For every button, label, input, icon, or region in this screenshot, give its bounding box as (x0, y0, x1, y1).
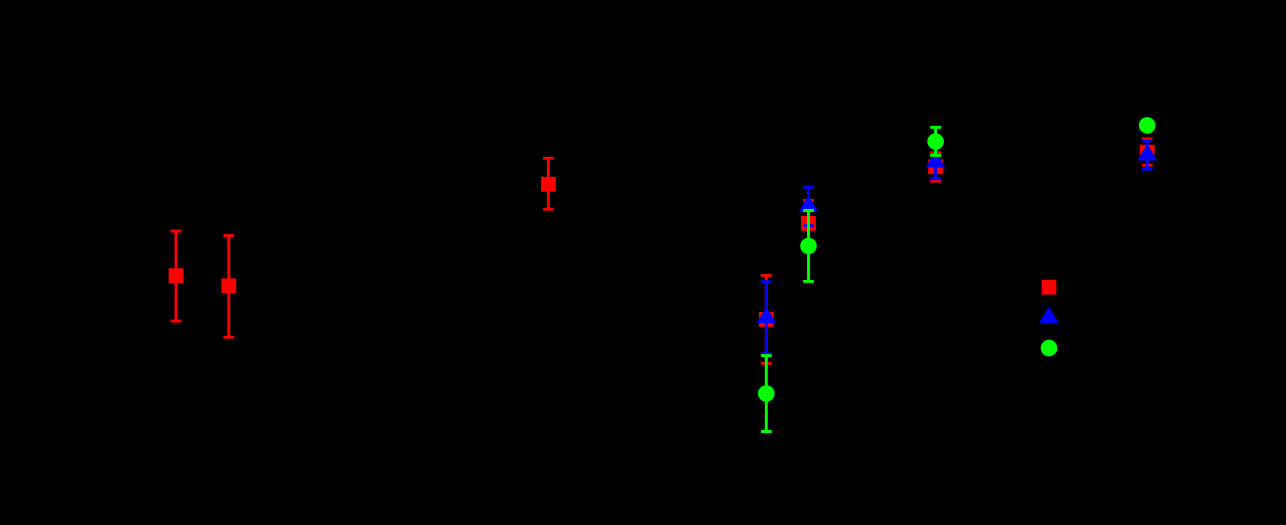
red square point 1 (169, 268, 184, 283)
legend green circle (1041, 340, 1058, 357)
green errorbar point 3 (930, 127, 941, 155)
blue errorbar point 1 (761, 282, 772, 354)
legend red square (1042, 280, 1057, 295)
green circle point 3 (927, 133, 944, 150)
red errorbar point 4 (761, 275, 772, 363)
blue triangle point 4 (1137, 144, 1157, 161)
blue errorbar point 4 (1142, 141, 1153, 170)
green circle point 2 (800, 238, 817, 255)
legend blue triangle (1039, 307, 1059, 324)
red errorbar point 6 (930, 153, 941, 181)
blue errorbar point 3 (930, 145, 941, 178)
red square point 5 (801, 216, 816, 231)
red errorbar point 2 (223, 236, 234, 338)
blue triangle point 2 (799, 196, 819, 213)
red errorbar point 3 (543, 158, 554, 209)
red errorbar point 1 (171, 231, 182, 321)
blue triangle point 3 (926, 151, 946, 168)
green errorbar point 4 (hidden behind marker) (1146, 122, 1149, 130)
green circle point 4 (1139, 117, 1156, 134)
green circle point 1 (758, 385, 775, 402)
blue errorbar point 2 (803, 187, 814, 225)
red errorbar point 5 (803, 200, 814, 246)
red square point 7 (1140, 145, 1155, 160)
green errorbar point 1 (761, 356, 772, 432)
red errorbar point 7 (1142, 139, 1153, 165)
red square point 4 (759, 312, 774, 327)
green errorbar point 2 (803, 211, 814, 282)
red square point 2 (221, 278, 236, 293)
red square point 3 (541, 177, 556, 192)
red square point 6 (928, 159, 943, 174)
blue triangle point 1 (756, 307, 776, 324)
